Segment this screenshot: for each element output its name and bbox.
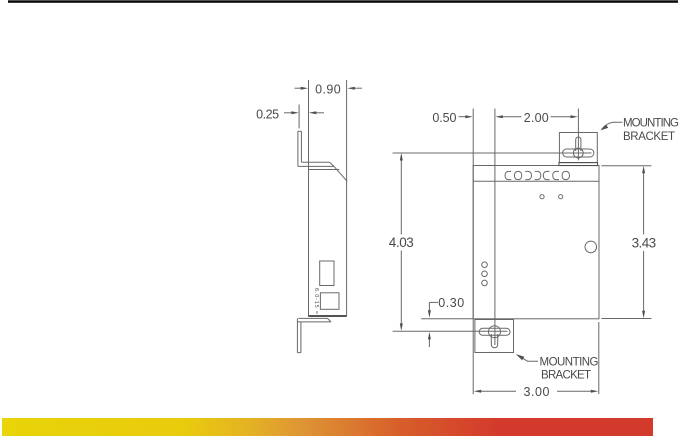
arrowhead dim 3.00 right — [591, 390, 599, 393]
dim 3.43: dimension line and extension lines — [643, 170, 645, 235]
front view: top band separator — [473, 180, 599, 182]
svg-text:4.03: 4.03 — [389, 235, 414, 250]
svg-text:2.00: 2.00 — [524, 111, 549, 125]
arrowhead dim 0.30 lower — [428, 332, 431, 340]
dim 3.00: dimension line and right extension — [479, 390, 516, 392]
svg-text:0.25: 0.25 — [256, 107, 279, 121]
leader line: top mounting bracket label — [602, 122, 623, 129]
side view: device bottom edge (thick) — [309, 315, 347, 317]
front view: top keyhole centreline (vertical) — [577, 109, 579, 161]
dim 0.30: elbow leader, tails, bottom-edge extension — [429, 301, 438, 303]
arrowhead dim 2.00 left — [495, 115, 503, 118]
terminal glyph row on top band — [505, 171, 569, 179]
top keyhole centreline (horizontal extension) — [393, 152, 592, 154]
svg-text:0.90: 0.90 — [315, 82, 341, 96]
svg-text:MOUNTING: MOUNTING — [623, 118, 679, 130]
arrowhead leader top bracket — [600, 125, 608, 131]
svg-text:MOUNTING: MOUNTING — [540, 357, 599, 369]
arrowhead dim 0.30 upper — [428, 310, 431, 318]
arrowhead dim 0.25 left — [291, 111, 299, 114]
arrowhead dim 4.03 bottom — [400, 323, 403, 331]
svg-text:0.50: 0.50 — [432, 111, 456, 125]
side view: upper connector — [320, 261, 334, 286]
leader line: bottom mounting bracket label — [518, 355, 539, 361]
front view: device body outline — [473, 166, 599, 319]
arrowhead dim 0.50 — [465, 115, 473, 118]
footer gradient bar — [2, 418, 653, 436]
arrowhead dim 2.00 right — [571, 115, 579, 118]
svg-text:3.00: 3.00 — [524, 385, 550, 399]
dim 0.25: leader tails and extension line — [284, 112, 294, 114]
svg-text:6.0-15 =: 6.0-15 = — [313, 288, 319, 314]
side view: right face / extension line — [346, 80, 348, 317]
glyph J3 — [525, 171, 531, 179]
dim 4.03: dimension line — [400, 155, 402, 235]
svg-text:0.30: 0.30 — [438, 296, 464, 310]
svg-text:3.43: 3.43 — [632, 235, 657, 250]
side view: device top edge — [309, 169, 340, 171]
glyph C5 — [543, 171, 549, 179]
side view: top mounting bracket (L profile) — [298, 131, 347, 181]
arrowhead dim 4.03 top — [400, 153, 403, 161]
side view: lower connector — [320, 293, 339, 310]
svg-text:BRACKET: BRACKET — [623, 131, 675, 143]
arrowhead dim 3.43 top — [642, 166, 645, 174]
arrowhead dim 0.25 right — [309, 111, 317, 114]
arrowhead dim 0.90 left — [301, 87, 309, 90]
dim 0.50 / 2.00: leader tails — [459, 116, 469, 118]
arrowhead leader bottom bracket — [516, 354, 524, 360]
glyph O2 — [515, 171, 522, 179]
glyph C6 — [553, 171, 559, 179]
svg-text:BRACKET: BRACKET — [541, 369, 591, 381]
front view: bottom keyhole centreline (vertical) — [494, 109, 496, 346]
header rule bar — [8, 0, 678, 3]
side view: bottom mounting bracket (L profile) — [297, 318, 331, 352]
glyph O7 — [562, 171, 569, 179]
small circle pair on panel — [540, 195, 544, 199]
glyph J4 — [535, 171, 541, 179]
dim 0.90: leader tails — [295, 87, 304, 89]
glyph C1 — [505, 171, 511, 179]
side view: left face / extension line — [308, 80, 310, 317]
arrowhead dim 3.43 bottom — [642, 311, 645, 319]
arrowhead dim 0.90 right — [347, 87, 355, 90]
bottom mounting bracket (front) with keyhole slot — [475, 320, 514, 353]
top mounting bracket (front) with keyhole slot — [559, 133, 598, 166]
arrowhead dim 3.00 left — [474, 390, 482, 393]
front view: left edge extension line (full height) — [472, 109, 474, 395]
three LED circles — [482, 262, 488, 268]
bottom keyhole centreline (horizontal extension) — [393, 330, 508, 332]
right side circle — [585, 241, 597, 253]
